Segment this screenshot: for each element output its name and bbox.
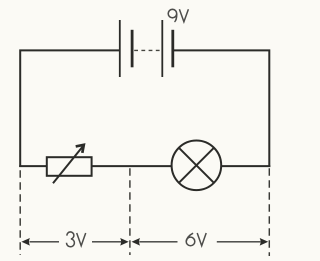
lamp cross line 2	[179, 148, 214, 183]
3V right arrowhead	[120, 238, 129, 246]
dimension 6V	[132, 233, 269, 246]
wire: bottom middle segment (resistor to lamp)	[92, 165, 172, 167]
lamp circle	[172, 141, 222, 191]
dashed guide line right	[268, 168, 270, 256]
wire: top-left horizontal and left vertical	[20, 50, 120, 167]
variable resistor R1	[47, 145, 92, 183]
6V right arrowhead	[260, 238, 269, 246]
resistor body	[47, 157, 92, 176]
resistor arrow shaft	[53, 146, 83, 183]
battery cell 1 long plate	[119, 20, 121, 77]
dimension 3V	[21, 232, 128, 247]
label 3V	[66, 232, 85, 247]
lamp L1	[172, 141, 222, 191]
label 6V	[186, 233, 206, 246]
label 9V	[168, 9, 188, 22]
wire: top-right horizontal and right vertical	[173, 50, 269, 167]
6V left line	[139, 241, 177, 243]
3V left line	[30, 241, 60, 243]
battery B1 9V	[120, 20, 173, 77]
battery cell 1 short plate	[131, 30, 134, 68]
dashed guide line middle	[129, 168, 131, 255]
3V right line	[92, 241, 121, 243]
wire: bottom right segment (lamp to right corner)	[221, 165, 270, 167]
battery internal dashed link	[134, 49, 160, 51]
wire: bottom left segment (left corner to resistor)	[19, 165, 47, 167]
3V left arrowhead	[21, 238, 30, 246]
6V right line	[217, 241, 261, 243]
battery cell 2 long plate	[161, 20, 163, 77]
6V left arrowhead	[132, 238, 141, 246]
dashed guide line left	[19, 170, 21, 255]
lamp cross line 1	[179, 148, 214, 183]
battery cell 2 short plate	[171, 30, 174, 68]
resistor arrow head	[76, 145, 84, 153]
